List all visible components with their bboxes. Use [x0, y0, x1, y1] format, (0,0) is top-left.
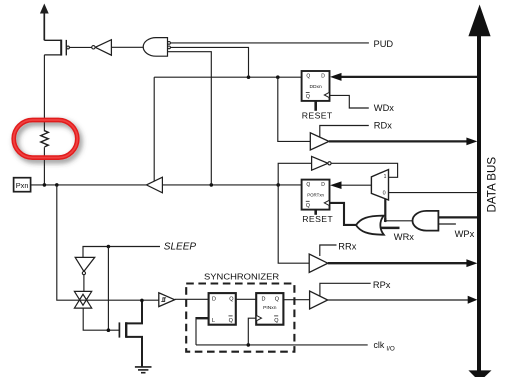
pin bubble U2 output: [92, 46, 95, 49]
svg-text:PINxn: PINxn: [263, 305, 277, 311]
node PORTQ-AND junction: [210, 183, 214, 187]
ground: [135, 367, 152, 373]
pin arrowhead RRx out: [466, 259, 477, 267]
op-amp output driver buffer: [146, 177, 162, 193]
data bus line: [477, 34, 481, 371]
svg-text:Q: Q: [306, 203, 310, 209]
wire U7 output to clamp: [83, 275, 85, 292]
latch L1: [209, 293, 236, 325]
wire pin net: [31, 184, 147, 186]
wire L1 Q to L2 D: [236, 298, 256, 300]
hysteresis mark: [161, 298, 166, 302]
op-amp RPx buffer: [310, 291, 328, 309]
wire DDxn Q net: [154, 76, 301, 78]
svg-text:Q: Q: [229, 318, 234, 324]
latch L2 PINxn: [256, 293, 283, 325]
wire RPx enable: [320, 283, 371, 296]
pin arrowhead DDxn D: [330, 73, 342, 81]
svg-text:DATA BUS: DATA BUS: [486, 157, 499, 213]
svg-text:SYNCHRONIZER: SYNCHRONIZER: [204, 271, 279, 281]
wire U4 output to mux input 1: [331, 163, 398, 177]
svg-text:1: 1: [384, 174, 387, 180]
red highlight oval: [14, 120, 78, 158]
wire PINxn clock: [248, 318, 256, 345]
svg-text:RESET: RESET: [302, 214, 333, 224]
wire U1 input2 from DDxn Q: [170, 47, 248, 77]
node DDQ-AND junction: [247, 75, 251, 79]
wire clamp to gate node: [83, 308, 108, 330]
AND gate U1 pull-up enable: [143, 38, 167, 57]
transistor M1 pull-up PMOS: [44, 40, 69, 56]
pin arrowhead RDx out: [466, 138, 477, 146]
wire L1 enable down: [195, 317, 197, 345]
op-amp schmitt trigger: [159, 293, 175, 307]
pin arrowhead RPx out: [468, 296, 478, 304]
inverter U7 sleep: [75, 257, 95, 271]
red highlight inner edge: [14, 120, 78, 158]
wire PINxn Q out: [283, 299, 309, 301]
multiplexer MUX: [371, 170, 388, 201]
clamp bowtie bottom diode: [74, 294, 91, 308]
svg-text:Q: Q: [306, 94, 310, 100]
svg-text:I/O: I/O: [386, 346, 394, 353]
node pin-pullup junction: [43, 183, 47, 187]
wire PORTxn Q net: [162, 184, 301, 186]
op-amp RRx buffer: [309, 254, 328, 272]
svg-text:WDx: WDx: [374, 103, 394, 113]
node sleep junction: [107, 245, 111, 249]
svg-text:Q: Q: [306, 182, 310, 188]
svg-text:L: L: [212, 318, 215, 324]
wire pin down to clamp: [57, 185, 159, 300]
wire clk io: [196, 344, 368, 346]
transistor M2 sleep clamp NMOS: [119, 301, 142, 367]
node gate junction: [107, 328, 111, 332]
pin bubble U7 output: [82, 272, 85, 275]
wire L1 latch enable: [196, 317, 209, 319]
wire VCC rail to resistor: [43, 55, 45, 131]
wire U1 input3 from PORTxn Q: [168, 52, 212, 185]
wire U1 output to inverter: [111, 46, 143, 48]
wire PORTxn reset stub: [314, 210, 317, 215]
wire RDx output to bus: [329, 140, 468, 142]
pin bubble U4 output: [328, 162, 331, 165]
wire mux select: [384, 199, 386, 221]
wire DDxn D from data bus: [341, 76, 479, 78]
Pxn pad box: [14, 178, 31, 192]
wire WPx AND output to OR and select: [385, 220, 412, 222]
node select junction: [384, 220, 387, 223]
wire schmitt to latch: [175, 298, 209, 300]
svg-text:Q: Q: [306, 73, 310, 79]
pin bubble U1 input1: [168, 42, 171, 45]
svg-text:Pxn: Pxn: [16, 181, 29, 190]
flip-flop DDxn: [302, 71, 330, 101]
wire select into OR input: [384, 218, 386, 222]
node drain junction: [140, 299, 144, 303]
wire mux input 0 from bus: [389, 192, 479, 194]
wire WRx stub: [381, 227, 400, 230]
svg-text:0: 0: [383, 190, 386, 196]
wire PUD: [170, 42, 369, 44]
svg-text:PUD: PUD: [374, 39, 394, 49]
node pin-input junction: [55, 183, 59, 187]
OR gate U5 write strobe: [356, 216, 384, 235]
svg-text:clk: clk: [374, 340, 385, 350]
wire U6 input from bus: [438, 216, 478, 218]
wire sleep to M2 gate: [108, 247, 119, 331]
wire WPx strobe: [438, 223, 456, 225]
svg-text:RRx: RRx: [338, 242, 356, 252]
wire RDx enable: [320, 126, 369, 138]
svg-text:WRx: WRx: [394, 232, 414, 242]
pin bubble U1 input2: [168, 46, 171, 49]
svg-text:PORTxn: PORTxn: [307, 193, 324, 198]
svg-text:Q: Q: [275, 296, 280, 302]
svg-text:RESET: RESET: [302, 111, 333, 121]
clamp bowtie top diode: [74, 291, 91, 305]
svg-text:D: D: [321, 182, 325, 188]
wire PORTQ to U4 input: [278, 163, 311, 185]
inverter U4 PORTxn feedback: [312, 156, 328, 170]
wire U2 to M1 gate: [69, 46, 91, 48]
node DDQ-RDx junction: [276, 75, 280, 79]
wire WDx: [330, 95, 369, 108]
op-amp RDx buffer: [310, 133, 329, 150]
inverter U2 pull-up: [95, 40, 111, 56]
wire resistor to pin node: [43, 147, 45, 185]
AND gate U6 WPx: [413, 211, 439, 231]
wire driver enable: [153, 77, 155, 181]
svg-text:WPx: WPx: [455, 229, 475, 239]
svg-text:DDxn: DDxn: [309, 84, 322, 90]
svg-text:Q: Q: [229, 296, 234, 302]
data bus top arrow: [468, 5, 490, 37]
node PORTQ-feedback junction: [276, 183, 280, 187]
svg-text:D: D: [262, 296, 266, 302]
svg-text:Q: Q: [274, 318, 279, 324]
data bus bottom arrow: [468, 370, 491, 377]
svg-text:SLEEP: SLEEP: [164, 242, 197, 253]
wire SLEEP: [83, 247, 160, 258]
wire RRx enable: [320, 245, 337, 256]
pin arrowhead PORTxn D: [330, 181, 342, 189]
svg-text:D: D: [212, 296, 216, 302]
wire PORTxn clock from OR: [330, 203, 357, 225]
synchronizer dashed box: [186, 284, 294, 352]
wire RRx output to bus: [328, 262, 468, 264]
wire DDxn Q to RDx buffer: [278, 77, 311, 141]
svg-text:RDx: RDx: [374, 121, 392, 131]
wire RPx output to bus: [328, 299, 470, 301]
wire mux output to PORTxn D: [342, 184, 372, 186]
node clk junction: [247, 343, 251, 347]
VCC arrow: [40, 4, 49, 41]
resistor pull-up: [41, 131, 49, 147]
wire DDxn reset stub: [314, 101, 317, 111]
svg-text:D: D: [321, 73, 325, 79]
wire PORTQ down to RRx buffer: [278, 185, 309, 263]
flip-flop PORTxn: [302, 180, 330, 210]
svg-text:RPx: RPx: [373, 280, 391, 290]
